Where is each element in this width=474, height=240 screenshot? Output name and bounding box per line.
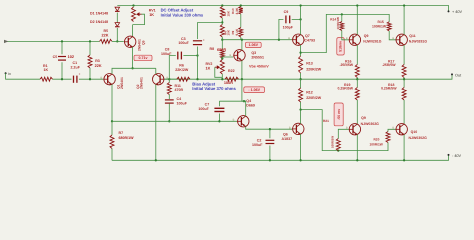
wire R10 R9 (240, 14, 242, 28)
node RV1 top (132, 4, 134, 6)
svg-text:100uF: 100uF (198, 107, 209, 111)
diode D2 (115, 23, 120, 27)
svg-text:Q10: Q10 (411, 130, 418, 134)
port In (5, 72, 7, 74)
node Q10 collector rail (403, 159, 405, 161)
resistor R18 0.25R/5W (403, 79, 405, 87)
wire Q3 emitter down (241, 61, 243, 80)
node Q8 collector rail (356, 4, 358, 6)
svg-text:470R: 470R (175, 88, 184, 92)
wire bias line top-left (5, 40, 99, 42)
resistor R11 470R (168, 79, 170, 82)
resistor R10 (239, 7, 243, 15)
svg-text:518mv: 518mv (339, 41, 343, 52)
svg-text:R21: R21 (323, 119, 329, 123)
svg-text:220R/2W: 220R/2W (306, 68, 322, 72)
svg-text:B: B (167, 76, 169, 79)
node C7 bus (218, 120, 220, 122)
svg-text:680R/1W: 680R/1W (119, 136, 135, 140)
svg-text:100R/1W: 100R/1W (336, 17, 340, 30)
svg-text:Initial Value 370 ohms: Initial Value 370 ohms (192, 86, 236, 91)
wire Q6 collector down (300, 134, 302, 160)
capacitor C2 (269, 129, 271, 138)
resistor R22 100R (225, 77, 239, 81)
wire Q7 collector to rail (300, 6, 302, 35)
svg-text:C9: C9 (284, 10, 289, 14)
resistor R13 220R/2W (299, 56, 303, 73)
node C5 bottom (61, 78, 63, 80)
wire Q3 base (222, 57, 233, 59)
wire Q4 emitter to Q6 base (246, 127, 292, 130)
svg-text:2N5401: 2N5401 (120, 77, 124, 89)
node Q7 collector rail (299, 4, 301, 6)
node VAS base wire (221, 39, 223, 41)
svg-text:R13: R13 (306, 62, 313, 66)
svg-text:+: + (79, 72, 81, 76)
node C2 rail (269, 159, 271, 161)
svg-text:+ 40V: + 40V (452, 10, 462, 14)
wire R21 to Q9 base (338, 129, 348, 138)
capacitor C4 (168, 95, 170, 100)
wire Q2 emitter up (155, 68, 157, 74)
svg-text:5.1K: 5.1K (235, 28, 239, 35)
node R10 top (240, 4, 242, 6)
wire Q6 emitter up (300, 110, 302, 124)
svg-text:100R/1W: 100R/1W (370, 142, 383, 146)
node R12 Q6 emitter (299, 108, 301, 110)
svg-text:Initial Value 330 ohms: Initial Value 330 ohms (161, 12, 204, 17)
capacitor C8 (169, 56, 176, 80)
svg-text:B: B (392, 127, 394, 130)
resistor R19 0.25R/5W (356, 79, 358, 87)
svg-text:B: B (346, 37, 348, 40)
wire C9 loop left (279, 19, 284, 39)
svg-text:C2: C2 (257, 139, 262, 143)
node R17 output (403, 78, 405, 80)
svg-text:680R: 680R (217, 48, 226, 52)
wire RV1 wiper loop (133, 14, 145, 24)
wire Q5 collector (132, 47, 134, 68)
resistor R4 (220, 25, 224, 38)
wire Q1 emitter up (112, 68, 156, 74)
wire C3 tap (198, 21, 223, 23)
wire R18 to Q10 emitter (403, 100, 405, 124)
svg-text:R22: R22 (228, 69, 235, 73)
wire Q8 collector to rail (356, 6, 358, 35)
svg-text:NJW0281G: NJW0281G (409, 39, 428, 43)
svg-text:C4: C4 (177, 97, 182, 101)
wire R15 to Q11 base (389, 31, 395, 40)
transistor Q2 2N5401 (153, 74, 164, 85)
wire Q8 emitter to R16 (356, 45, 358, 65)
svg-text:C8: C8 (165, 48, 170, 52)
node feedback (168, 78, 170, 80)
wire D2 to node (116, 28, 118, 41)
wire D1-D2 (116, 13, 118, 23)
wire R9 bottom (240, 37, 242, 40)
transistor Q7 C4793 (293, 34, 304, 45)
svg-text:Q3: Q3 (251, 51, 256, 55)
svg-text:B: B (288, 37, 290, 40)
svg-text:D1 1N4148: D1 1N4148 (90, 12, 108, 16)
trimmer RV1 (132, 7, 136, 22)
svg-text:Q9: Q9 (361, 116, 366, 120)
svg-text:100R/1W: 100R/1W (372, 24, 387, 28)
wire R20 to Q10 base (388, 129, 396, 131)
resistor R21 (336, 139, 340, 151)
node +40V pin (448, 10, 450, 12)
svg-text:100R/1W: 100R/1W (331, 136, 335, 148)
svg-text:.25R/5W: .25R/5W (340, 63, 354, 67)
label 1.06V (245, 42, 261, 47)
svg-text:22K/2W: 22K/2W (175, 68, 189, 72)
wire bias to Q7 base (222, 39, 292, 41)
svg-text:B: B (346, 127, 348, 130)
node C8 right (196, 54, 198, 56)
svg-text:Q7: Q7 (305, 34, 310, 38)
transistor Q3 2N5551 (234, 50, 245, 61)
svg-text:NJW0302G: NJW0302G (409, 136, 428, 140)
svg-text:D669: D669 (246, 103, 255, 107)
svg-text:1.06V: 1.06V (249, 43, 259, 47)
resistor R3 (89, 41, 91, 55)
svg-text:Out: Out (455, 73, 462, 77)
svg-text:0.25R/5W: 0.25R/5W (338, 87, 354, 91)
node R11 C4 bus (168, 120, 170, 122)
wire -40V bottom rail (112, 155, 449, 160)
svg-text:2.2uF: 2.2uF (71, 66, 81, 70)
node Q11 collector rail (403, 4, 405, 6)
trimmer RV2 (220, 60, 224, 75)
svg-text:Q6: Q6 (283, 133, 288, 137)
wire Q2 collector down (155, 84, 157, 160)
resistor R14 100R/1W (341, 14, 343, 21)
node bias chain top (221, 4, 223, 6)
transistor Q5 2N5401 (125, 36, 136, 47)
wire Q10 collector to rail (403, 135, 405, 161)
wire Q1 collector down (111, 84, 113, 121)
svg-text:R8: R8 (210, 47, 215, 51)
node Q6 collector rail (299, 159, 301, 161)
node C3 bottom rail (196, 78, 198, 80)
node R14 tap (341, 13, 343, 15)
svg-text:1K: 1K (206, 67, 211, 71)
svg-text:+: + (203, 38, 205, 42)
resistor R6 22K/2W (177, 77, 190, 81)
flag left end (4, 40, 9, 43)
label -1.06V (244, 87, 265, 93)
wire RV2 bottom (221, 74, 223, 79)
wire input to R1 (6, 73, 40, 79)
wire RV2 wiper loop (215, 67, 223, 77)
node -40V pin (448, 154, 450, 156)
wire Q2 base to node (164, 78, 170, 80)
resistor R2 (220, 7, 224, 19)
wire Q11 emitter to R17 (403, 45, 405, 65)
transistor Q4 D669 (238, 116, 249, 127)
node Q3 collector (241, 39, 243, 41)
svg-text:In: In (8, 72, 11, 76)
node R3 bottom (89, 78, 91, 80)
svg-text:NJW0302G: NJW0302G (361, 122, 380, 126)
svg-text:Vbe 450mV: Vbe 450mV (249, 65, 269, 69)
svg-text:C5: C5 (53, 55, 58, 59)
wire Q11 collector to rail (403, 6, 405, 35)
svg-text:B: B (230, 54, 232, 57)
svg-text:C1: C1 (73, 61, 78, 65)
svg-text:0.25R/5W: 0.25R/5W (381, 87, 397, 91)
svg-text:220R/2W: 220R/2W (306, 96, 322, 100)
svg-text:1K: 1K (44, 68, 49, 72)
node Q7 emitter split (299, 51, 301, 53)
capacitor C1 (73, 76, 74, 83)
svg-text:B: B (392, 37, 394, 40)
svg-text:1K: 1K (149, 13, 154, 17)
node R5 D2 Q5 base (116, 40, 118, 42)
resistor R5 (100, 39, 113, 43)
node Out pin (451, 73, 453, 75)
svg-text:R3: R3 (95, 59, 100, 63)
transistor Q9 NJW0302G (349, 124, 360, 135)
node Q5 tail (131, 67, 133, 69)
node Q4 collector C7 (243, 100, 245, 102)
svg-text:2N5401: 2N5401 (140, 77, 144, 89)
transistor Q1 2N5401 (104, 74, 115, 85)
svg-text:C4793: C4793 (304, 39, 315, 43)
svg-text:A1837: A1837 (282, 137, 293, 141)
svg-text:-50 mv: -50 mv (337, 109, 341, 120)
node Q9 collector rail (356, 159, 358, 161)
svg-text:R7: R7 (119, 131, 124, 135)
wire R1 to C1 (53, 78, 72, 80)
node R3 top (89, 40, 91, 42)
wire Q9 collector to rail (356, 135, 358, 161)
svg-text:RV2: RV2 (206, 62, 213, 66)
svg-text:100uF: 100uF (161, 52, 172, 56)
wire R19 to Q9 emitter (356, 100, 358, 124)
wire R2 bottom (221, 18, 223, 25)
wire base bus lower (112, 120, 238, 122)
svg-text:NJW0281G: NJW0281G (363, 39, 382, 43)
svg-text:100uF: 100uF (252, 143, 263, 147)
node C3 tap (221, 21, 223, 23)
resistor R15 100R/1W (387, 22, 391, 31)
resistor R9 (239, 28, 243, 38)
transistor Q11 NJW0281G (396, 34, 407, 45)
svg-text:- 40V: - 40V (452, 154, 462, 158)
wire driver bus top (301, 14, 390, 52)
wire Q3 collector up (241, 40, 243, 50)
label 518mv (337, 38, 344, 55)
resistor R16 .25R/5W (355, 65, 359, 78)
capacitor C7 (218, 101, 220, 106)
svg-text:100pF: 100pF (283, 25, 294, 29)
node C9 right (299, 18, 301, 20)
capacitor C5 (61, 41, 63, 54)
wire Q7 emitter down (300, 45, 302, 56)
svg-text:B: B (233, 119, 235, 122)
svg-text:22K: 22K (95, 64, 102, 68)
svg-text:Q5: Q5 (141, 40, 145, 45)
capacitor C3 (197, 22, 199, 39)
resistor R1 (40, 77, 53, 81)
svg-text:Q9: Q9 (364, 34, 369, 38)
resistor R8 680R (221, 40, 223, 50)
wire R4 to node (221, 37, 223, 40)
svg-text:B: B (289, 126, 291, 129)
transistor Q6 A1837 (293, 123, 304, 134)
svg-text:R12: R12 (306, 90, 313, 94)
svg-text:RV1: RV1 (149, 9, 156, 13)
svg-text:- 1.06V: - 1.06V (248, 88, 260, 92)
node Q3 emitter output (241, 78, 243, 80)
svg-text:100uF: 100uF (177, 101, 188, 105)
node Q2 collector rail (155, 159, 157, 161)
node C5 top (61, 40, 63, 42)
svg-text:Q4: Q4 (246, 99, 251, 103)
wire RV1 to Q5 emitter (132, 25, 134, 37)
svg-text:.25R/5W: .25R/5W (382, 63, 396, 67)
node C2 tap (269, 128, 271, 130)
wire Q3e to Q4c link (242, 79, 246, 101)
capacitor C9 100pF (285, 16, 286, 24)
resistor R12 220R/2W (300, 79, 302, 88)
svg-text:R5: R5 (104, 29, 109, 33)
svg-text:0.71v: 0.71v (139, 56, 148, 60)
node R16 output (356, 78, 358, 80)
resistor R20 100R/1W (386, 132, 390, 143)
svg-text:2N5551: 2N5551 (251, 56, 264, 60)
transistor Q10 NJW0302G (396, 124, 407, 135)
resistor R7 680R/1W (111, 121, 113, 135)
resistor R17 .25R/5W (402, 65, 406, 78)
svg-text:B: B (101, 76, 103, 79)
svg-text:102: 102 (68, 55, 74, 59)
transistor Q8 NJW0281G (349, 34, 360, 45)
diode D1 (115, 7, 120, 11)
wire R14 to Q8 base (342, 31, 349, 40)
wire output rail (164, 75, 452, 80)
wire driver bus bottom (301, 110, 388, 151)
svg-text:22K: 22K (102, 33, 109, 37)
node RV2 output (221, 78, 223, 80)
node R8 RV2 (221, 57, 223, 59)
svg-text:15K: 15K (226, 10, 230, 16)
wire C1 to Q1 base (79, 78, 104, 80)
svg-text:R20: R20 (374, 137, 380, 141)
svg-text:100R: 100R (224, 81, 233, 85)
svg-text:100uF: 100uF (178, 41, 189, 45)
svg-text:D2 1N4148: D2 1N4148 (90, 20, 108, 24)
wire Q4 collector up (219, 101, 245, 116)
node R21 tap (337, 149, 339, 151)
node R13 output rail (299, 78, 301, 80)
node C9 base tap (278, 39, 280, 41)
wire +40V top rail (117, 6, 448, 12)
svg-text:Q11: Q11 (409, 34, 415, 38)
svg-text:3.3K: 3.3K (235, 7, 239, 14)
node Q1 collector bus (111, 120, 113, 122)
label 0.71v (134, 55, 152, 61)
label -50mv (334, 103, 343, 126)
